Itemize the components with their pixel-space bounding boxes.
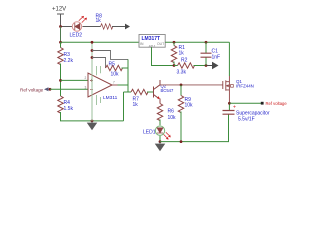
node dot supercap top <box>228 102 231 105</box>
svg-text:1.5k: 1.5k <box>64 106 74 112</box>
resistor R7 <box>124 91 132 93</box>
wire R9 bottom to rail <box>180 112 182 142</box>
capacitor C1 <box>201 42 221 65</box>
node dot (92,50.5) <box>91 49 94 52</box>
wire output vertical x=129 <box>127 59 129 92</box>
svg-text:IN: IN <box>140 42 144 46</box>
svg-text:1k: 1k <box>96 18 102 24</box>
svg-text:Ref voltage: Ref voltage <box>266 101 288 106</box>
terminal arrow (right) top <box>125 24 130 30</box>
svg-text:10k: 10k <box>185 103 194 109</box>
wire Q2 collector to Q1 gate (maroon) <box>160 84 223 86</box>
svg-text:OUT: OUT <box>157 42 164 46</box>
svg-text:2: 2 <box>85 76 87 80</box>
ground (left) <box>88 121 97 130</box>
svg-text:1k: 1k <box>133 102 139 108</box>
wire LED1 to ground <box>159 136 161 142</box>
resistor R5 <box>106 65 123 70</box>
node dot C1 top <box>205 41 208 44</box>
wire R8 to arrow terminal <box>112 26 125 28</box>
wire B: V+ to R5 left <box>92 58 106 69</box>
wire R7-left to bottom rail <box>123 92 125 121</box>
svg-text:LED2: LED2 <box>70 33 83 39</box>
svg-text:10k: 10k <box>111 72 120 78</box>
wire LM317 ADJ <box>152 47 175 65</box>
node dot C1 bottom <box>205 64 208 67</box>
wire R9 top <box>180 85 182 96</box>
wire left rail 26.5 to 42.3 <box>60 27 62 43</box>
wire divider to op-amp + input <box>61 79 89 81</box>
wire +12V main to LM317 IN <box>61 41 140 43</box>
svg-text:LED1: LED1 <box>143 130 156 136</box>
node dot (92,57.5) <box>91 56 94 59</box>
svg-text:1nF: 1nF <box>212 55 221 61</box>
wire R5 right to output vertical <box>122 67 129 69</box>
svg-text:2.2k: 2.2k <box>64 58 74 64</box>
wire R2 to C1 node <box>194 65 208 67</box>
LED LED1 <box>143 126 170 139</box>
svg-text:IRFZ44N: IRFZ44N <box>236 84 254 89</box>
wire +12V to LED2 <box>61 26 73 28</box>
node dot R1 top <box>173 41 176 44</box>
svg-text:3.3k: 3.3k <box>177 70 187 76</box>
wire bottom rail to supercap <box>160 115 229 142</box>
node dot at 12V rail / LED2 tap <box>59 25 62 28</box>
svg-text:3: 3 <box>85 86 87 90</box>
wire pale V+ drop x=92 <box>91 42 93 121</box>
wire LM317 OUT <box>165 41 229 43</box>
wire A: V+ to output pull-up top <box>92 51 128 60</box>
wire rail to R3 <box>60 42 62 47</box>
svg-text:R5: R5 <box>109 62 116 68</box>
resistor R2 <box>174 65 178 67</box>
resistor R3 <box>58 48 63 65</box>
resistor R9 <box>178 96 183 113</box>
wire Q1 source down <box>228 103 230 110</box>
node dot R1 bottom / ADJ <box>173 64 176 67</box>
wire op-amp output to vertical <box>118 84 129 86</box>
node dot divider tap <box>59 79 62 82</box>
power +12V <box>57 14 64 27</box>
net label Ref voltage (right) <box>261 102 264 105</box>
node dot (92,42.3) <box>91 41 94 44</box>
wire rail R3 to R4 <box>60 64 62 97</box>
capacitor C2 supercapacitor <box>223 105 270 123</box>
wire R6 to LED1 <box>159 120 161 126</box>
wire OUT to Q1 drain <box>228 42 230 76</box>
svg-text:1k: 1k <box>179 51 185 57</box>
svg-text:LM311: LM311 <box>103 95 118 101</box>
wire R7 to Q2 base <box>147 91 153 93</box>
resistor R6 <box>157 104 162 121</box>
node dot ground right <box>159 140 162 143</box>
wire to Ref voltage label right <box>229 102 261 104</box>
node dot R9 tap <box>180 84 183 87</box>
node dot main rail <box>59 41 62 44</box>
svg-text:R6: R6 <box>168 109 175 115</box>
node dot ground junction left <box>91 120 94 123</box>
resistor R8 <box>101 24 113 29</box>
resistor R1 <box>173 42 175 45</box>
op-amp U1 LM311 <box>85 66 118 105</box>
transistor Q2 BC547 <box>154 80 161 104</box>
svg-text:10k: 10k <box>168 115 177 121</box>
ground (right) <box>156 142 165 151</box>
terminal arrow (right) mid <box>207 63 218 69</box>
svg-text:BC547: BC547 <box>161 88 174 93</box>
wire R4 to bottom rail <box>61 112 124 121</box>
node dot R9 bottom <box>180 140 183 143</box>
svg-text:+12V: +12V <box>52 7 66 13</box>
svg-text:7: 7 <box>113 81 115 85</box>
wire LED2 to R8 <box>83 26 101 28</box>
transistor Q1 IRFZ44N (mosfet) <box>223 76 230 103</box>
svg-text:R2: R2 <box>181 58 188 64</box>
svg-text:5.5v/1F: 5.5v/1F <box>238 117 255 123</box>
LED LED2 <box>70 16 87 38</box>
wire ref voltage to op-amp - input <box>50 88 88 90</box>
svg-text:Ref voltage: Ref voltage <box>20 87 44 92</box>
regulator U2 LM317 box <box>139 35 165 49</box>
resistor R4 <box>58 96 63 113</box>
